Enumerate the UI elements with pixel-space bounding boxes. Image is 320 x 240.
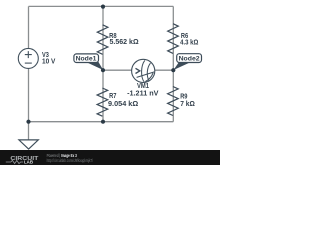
junction bottom left (ground tap) <box>26 120 30 124</box>
voltage source V3 <box>18 48 38 68</box>
svg-text:7 kΩ: 7 kΩ <box>180 101 195 108</box>
resistor R7 <box>97 88 108 116</box>
wire middle horizontal (voltmeter row) <box>103 69 173 71</box>
CircuitLab logo <box>6 156 39 164</box>
svg-text:Node2: Node2 <box>179 55 200 62</box>
svg-text:VM1: VM1 <box>137 83 149 90</box>
svg-text:LAB: LAB <box>24 160 34 165</box>
svg-text:10 V: 10 V <box>42 59 56 66</box>
footer bar <box>0 150 220 165</box>
svg-text:-1.211 nV: -1.211 nV <box>127 91 159 98</box>
svg-text:Node1: Node1 <box>76 55 97 62</box>
junction node B (Node2 tap) <box>171 68 175 72</box>
voltmeter VM1 <box>132 59 155 82</box>
junction bottom middle <box>101 120 105 124</box>
wire left vertical upper <box>28 6 30 48</box>
resistor R9 <box>168 87 179 116</box>
svg-text:R9: R9 <box>180 93 187 100</box>
wire top horizontal <box>29 5 174 7</box>
node flag Node1 <box>74 54 103 70</box>
wire right vertical <box>172 6 174 121</box>
svg-text:4.3 kΩ: 4.3 kΩ <box>180 40 199 47</box>
svg-text:R7: R7 <box>109 93 116 100</box>
wire bottom horizontal <box>29 121 174 123</box>
svg-text:http://circuitlab.com/c/8fkxqq: http://circuitlab.com/c/8fkxqqkmjk7/ <box>47 158 94 163</box>
node flag Node2 <box>174 54 202 70</box>
wire middle vertical <box>102 6 104 121</box>
wire left vertical lower <box>28 68 30 121</box>
junction dot top middle <box>101 5 105 9</box>
ground <box>28 122 30 140</box>
svg-text:9.054 kΩ: 9.054 kΩ <box>108 101 139 108</box>
svg-text:5.562 kΩ: 5.562 kΩ <box>110 39 139 46</box>
resistor R6 <box>168 24 179 54</box>
junction node A (Node1 tap) <box>101 68 105 72</box>
resistor R8 <box>97 25 108 55</box>
